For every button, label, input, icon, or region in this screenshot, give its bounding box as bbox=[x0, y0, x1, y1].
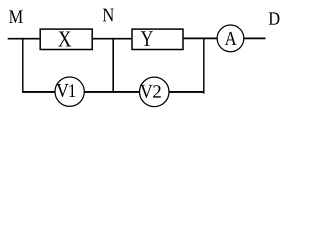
wire V2 to bottom right corner bbox=[169, 91, 204, 93]
node N bbox=[103, 9, 114, 22]
wire box Y to ammeter bbox=[183, 37, 217, 39]
node D bbox=[269, 12, 280, 24]
voltmeter V1 bbox=[55, 77, 84, 106]
node M bbox=[9, 10, 23, 23]
wire middle vertical N branch bbox=[112, 38, 114, 93]
ammeter A bbox=[217, 25, 244, 52]
wire M to box X bbox=[8, 38, 41, 40]
wire box X to box Y bbox=[92, 38, 132, 40]
box X bbox=[40, 29, 92, 49]
voltmeter V2 bbox=[140, 77, 170, 107]
wire bottom left to V1 bbox=[22, 91, 55, 93]
wire V1 to V2 bbox=[85, 91, 140, 93]
wire left vertical M branch bbox=[22, 38, 24, 93]
wire right vertical branch bbox=[203, 38, 205, 94]
wire ammeter to D bbox=[244, 37, 265, 39]
box Y bbox=[132, 29, 183, 49]
